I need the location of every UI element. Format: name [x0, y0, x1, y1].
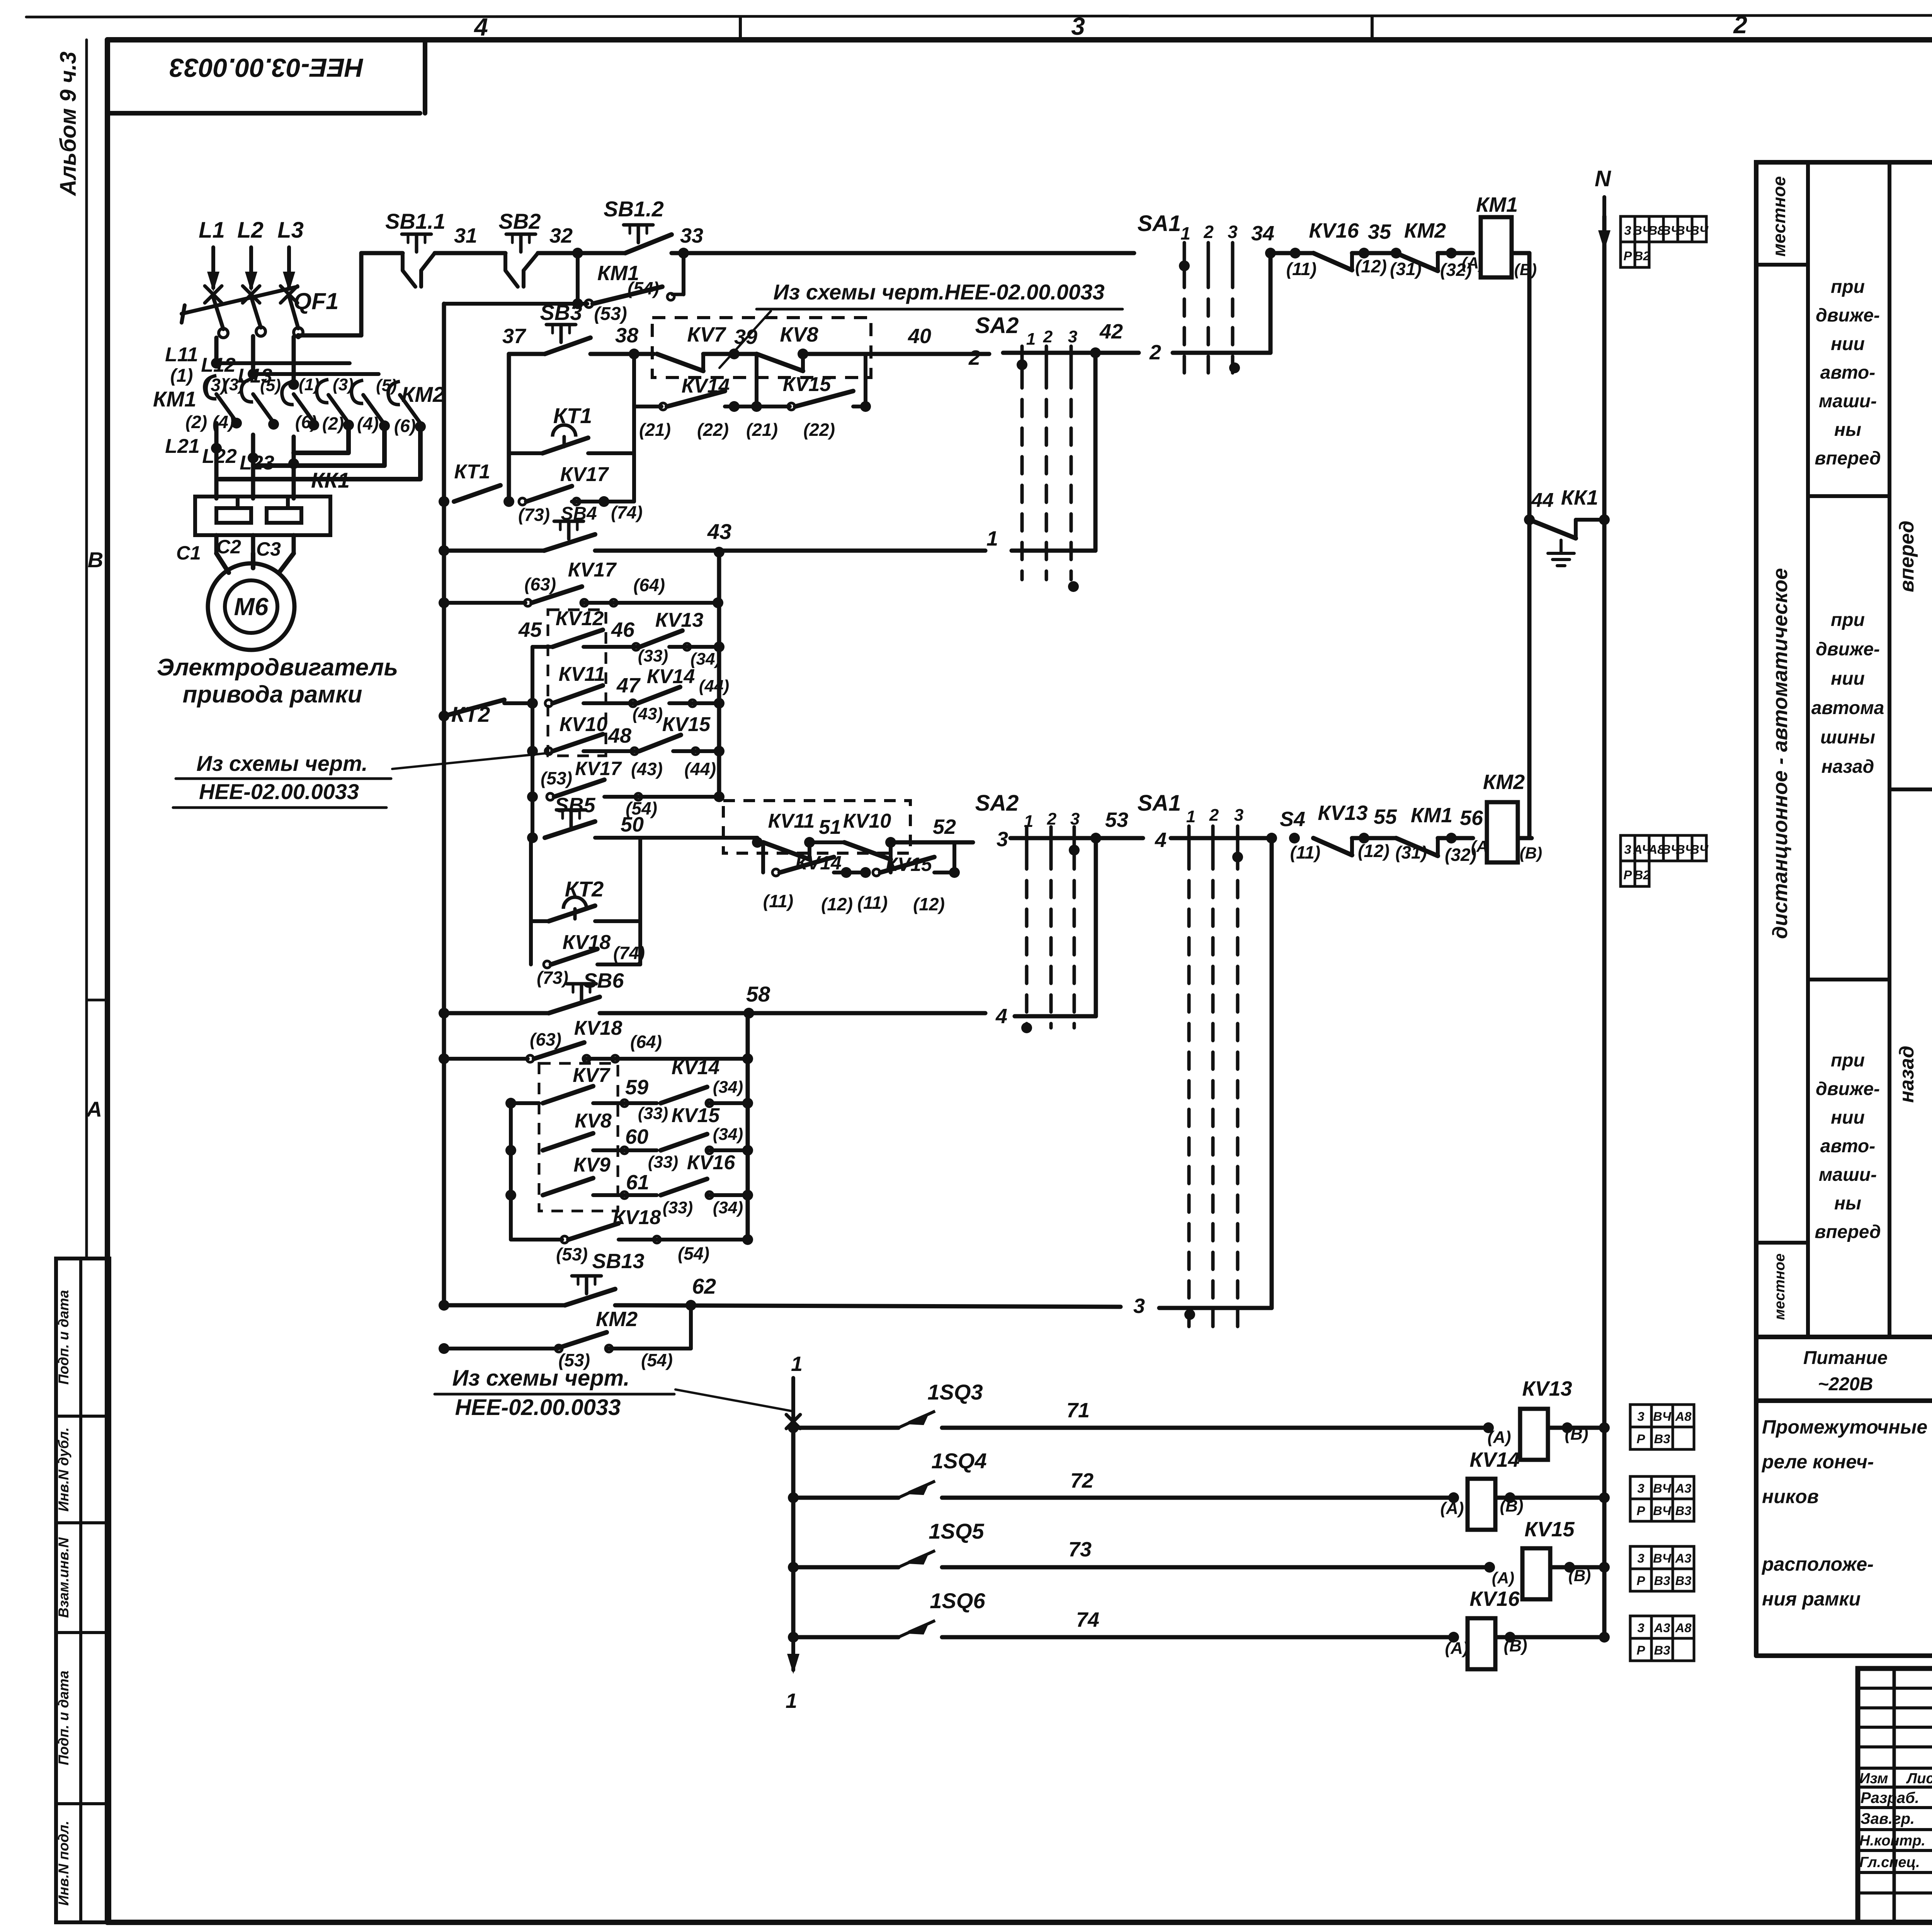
- svg-text:КМ1: КМ1: [1411, 804, 1452, 827]
- leader to KV10: [392, 753, 552, 769]
- relay coil KV13: [1520, 1409, 1548, 1460]
- KT2 / KV18 pair above rail 58: [529, 838, 533, 921]
- svg-text:А8: А8: [1675, 1621, 1692, 1635]
- svg-text:1: 1: [986, 527, 998, 550]
- svg-text:(3): (3): [333, 375, 354, 394]
- svg-text:4: 4: [1155, 828, 1167, 852]
- svg-text:L21: L21: [165, 435, 200, 457]
- svg-text:1SQ5: 1SQ5: [929, 1519, 984, 1543]
- rail 62 / 3: [439, 1300, 449, 1311]
- svg-text:34: 34: [1251, 222, 1274, 245]
- rail 43: [439, 545, 449, 556]
- svg-text:(12): (12): [821, 894, 853, 914]
- svg-text:(44): (44): [699, 677, 729, 696]
- svg-text:58: 58: [746, 982, 770, 1006]
- svg-text:2: 2: [1043, 327, 1053, 346]
- svg-text:назад: назад: [1896, 1046, 1918, 1103]
- svg-text:движе-: движе-: [1816, 1079, 1880, 1099]
- svg-text:47: 47: [616, 674, 641, 697]
- KM2 coil wiring table: [1621, 835, 1635, 861]
- svg-text:КV13: КV13: [1522, 1377, 1572, 1400]
- svg-text:КМ2: КМ2: [1404, 219, 1446, 242]
- svg-text:КV11: КV11: [559, 663, 605, 685]
- svg-text:КV13: КV13: [1318, 801, 1367, 825]
- svg-text:SB1.2: SB1.2: [604, 197, 664, 221]
- bus B vertical (node37): [507, 354, 511, 502]
- wire QF1 pole3 to rail1 riser: [296, 335, 301, 337]
- vertical KM2 coil up to KK1 joint: [1531, 520, 1532, 838]
- svg-text:33: 33: [680, 224, 703, 247]
- svg-text:(64): (64): [630, 1032, 662, 1052]
- svg-text:3: 3: [997, 828, 1008, 851]
- mestnoe top cell: [1756, 263, 1808, 267]
- svg-text:N: N: [1595, 166, 1611, 191]
- dashed box KV7/8/9 lower: [539, 1063, 618, 1211]
- svg-text:нии: нии: [1831, 668, 1865, 689]
- svg-text:(1): (1): [170, 366, 193, 386]
- svg-text:(44): (44): [684, 759, 716, 779]
- svg-text:А3: А3: [1675, 1551, 1692, 1565]
- svg-text:А: А: [86, 1097, 102, 1121]
- SA2-2 right col to rail 4: [1094, 838, 1098, 1016]
- svg-text:А3: А3: [1675, 1481, 1692, 1495]
- svg-text:НЕЕ-02.00.0033: НЕЕ-02.00.0033: [455, 1395, 621, 1420]
- svg-text:3: 3: [1133, 1294, 1145, 1318]
- svg-text:(33): (33): [663, 1198, 693, 1217]
- svg-text:(4): (4): [357, 413, 379, 434]
- svg-text:движе-: движе-: [1816, 639, 1880, 660]
- inner frame: [105, 40, 110, 1922]
- svg-text:ников: ников: [1762, 1486, 1819, 1507]
- KK1 outputs to motor: [214, 535, 219, 553]
- svg-text:С3: С3: [256, 538, 281, 560]
- svg-text:КV10: КV10: [560, 713, 608, 736]
- svg-text:КV18: КV18: [574, 1017, 622, 1039]
- svg-text:59: 59: [625, 1076, 648, 1099]
- relay coil KV16: [1468, 1618, 1495, 1669]
- svg-text:(63): (63): [530, 1029, 561, 1049]
- title block outer: [1858, 1668, 1932, 1922]
- svg-text:44: 44: [1531, 489, 1554, 512]
- svg-text:SB3: SB3: [540, 300, 582, 325]
- svg-text:КТ1: КТ1: [454, 461, 490, 483]
- svg-text:1SQ6: 1SQ6: [930, 1588, 985, 1613]
- svg-text:(74): (74): [613, 943, 645, 963]
- supply x marks: [205, 286, 222, 303]
- svg-text:45: 45: [518, 618, 542, 641]
- svg-text:3: 3: [1068, 327, 1077, 346]
- svg-text:2: 2: [1733, 11, 1747, 39]
- svg-text:52: 52: [933, 815, 956, 838]
- KM2 main contacts: [328, 395, 349, 423]
- svg-text:ВЧ: ВЧ: [1653, 1481, 1672, 1495]
- svg-text:(63): (63): [524, 574, 556, 594]
- svg-text:SB13: SB13: [592, 1250, 644, 1273]
- svg-text:2: 2: [968, 346, 980, 369]
- svg-text:КV17: КV17: [560, 463, 609, 486]
- KM2 selfhold row: [444, 1305, 444, 1349]
- rail1 to KV16: [1270, 251, 1312, 255]
- relay coil KV15: [1522, 1548, 1550, 1599]
- svg-text:В3: В3: [1675, 1573, 1692, 1588]
- sheet margin thin left line: [85, 40, 88, 1259]
- svg-text:3: 3: [1624, 842, 1631, 857]
- svg-text:Р: Р: [1624, 249, 1632, 263]
- svg-text:В3: В3: [1654, 1643, 1670, 1657]
- svg-text:ВЧ: ВЧ: [1690, 842, 1709, 857]
- svg-text:SA1: SA1: [1138, 791, 1181, 816]
- svg-text:L3: L3: [277, 218, 304, 243]
- svg-text:КV8: КV8: [780, 323, 818, 346]
- ruler tick 2: [1371, 16, 1374, 40]
- svg-text:35: 35: [1368, 220, 1391, 243]
- leader to 1SQ bus: [675, 1389, 792, 1411]
- svg-text:(74): (74): [611, 502, 643, 522]
- svg-text:КV16: КV16: [1309, 219, 1359, 242]
- svg-text:Зав.гр.: Зав.гр.: [1861, 1810, 1915, 1827]
- svg-text:1: 1: [1186, 807, 1196, 826]
- svg-text:нии: нии: [1831, 1107, 1865, 1128]
- svg-text:4: 4: [473, 13, 488, 41]
- svg-text:40: 40: [908, 325, 931, 348]
- vertical node58 down: [746, 1013, 750, 1240]
- title block left table rows: [1858, 1687, 1932, 1690]
- relay coil KV14: [1468, 1479, 1495, 1530]
- row 73: [788, 1562, 799, 1573]
- svg-text:ВЧ: ВЧ: [1653, 1409, 1672, 1423]
- KT1 lower row (73 74): [439, 496, 449, 507]
- supply arrows: [211, 247, 215, 288]
- svg-text:71: 71: [1066, 1399, 1090, 1422]
- svg-text:(5): (5): [260, 376, 281, 395]
- svg-text:3: 3: [1624, 223, 1631, 238]
- svg-text:КV14: КV14: [672, 1056, 720, 1079]
- svg-text:КМ2: КМ2: [596, 1308, 638, 1331]
- svg-text:(43): (43): [631, 759, 663, 779]
- svg-text:С2: С2: [216, 536, 241, 558]
- svg-text:(12): (12): [1358, 841, 1389, 861]
- svg-text:КV15: КV15: [783, 373, 832, 396]
- svg-text:КV14: КV14: [647, 665, 695, 688]
- svg-text:КМ1: КМ1: [1476, 193, 1518, 216]
- svg-text:В3: В3: [1654, 1432, 1670, 1446]
- svg-text:3: 3: [1637, 1621, 1644, 1635]
- svg-text:53: 53: [1105, 808, 1128, 832]
- svg-text:КК1: КК1: [1561, 486, 1598, 509]
- svg-text:КV14: КV14: [1469, 1448, 1519, 1471]
- svg-text:(2): (2): [322, 413, 344, 434]
- svg-text:4: 4: [995, 1005, 1007, 1028]
- svg-text:НЕЕ-02.00.0033: НЕЕ-02.00.0033: [199, 779, 359, 804]
- svg-text:(22): (22): [697, 420, 729, 440]
- svg-text:Из схемы черт.: Из схемы черт.: [196, 751, 367, 776]
- svg-text:3: 3: [1637, 1551, 1644, 1565]
- row 48 KV10 KV15: [527, 746, 538, 757]
- svg-text:ВЧ: ВЧ: [1690, 223, 1709, 238]
- svg-text:КТ1: КТ1: [553, 403, 592, 428]
- svg-text:SA1: SA1: [1138, 211, 1181, 236]
- svg-text:(А): (А): [1492, 1569, 1514, 1587]
- svg-text:КV11: КV11: [768, 810, 815, 832]
- svg-text:(21): (21): [746, 420, 778, 440]
- row 61 KV9 KV16: [505, 1190, 516, 1201]
- svg-text:(43): (43): [633, 704, 663, 723]
- svg-text:3: 3: [1637, 1481, 1644, 1495]
- svg-text:А3: А3: [1654, 1621, 1670, 1635]
- svg-text:31: 31: [454, 224, 477, 247]
- svg-text:Р: Р: [1637, 1503, 1645, 1518]
- svg-text:SA2: SA2: [975, 313, 1019, 338]
- svg-text:(2): (2): [185, 412, 207, 432]
- svg-text:КV15: КV15: [672, 1104, 720, 1127]
- promezhutochnye box: [1754, 1401, 1759, 1656]
- row 71: [788, 1422, 799, 1433]
- KV14 KV15 row under: [761, 842, 765, 872]
- svg-text:Подп. и дата: Подп. и дата: [56, 1290, 71, 1384]
- KM2 output loops back to motor lines: [219, 427, 420, 479]
- svg-text:(53): (53): [556, 1244, 588, 1264]
- svg-text:SB2: SB2: [499, 209, 541, 233]
- svg-text:42: 42: [1099, 320, 1123, 343]
- svg-text:(5): (5): [376, 376, 397, 395]
- svg-text:50: 50: [621, 813, 644, 836]
- svg-text:(В): (В): [1520, 844, 1542, 862]
- svg-text:КК1: КК1: [311, 468, 350, 492]
- svg-text:НЕЕ-03.00.0033: НЕЕ-03.00.0033: [169, 53, 364, 82]
- svg-text:КV15: КV15: [662, 713, 711, 736]
- distancionnoe cell: [1756, 1241, 1808, 1245]
- ruler tick 1: [739, 18, 742, 40]
- svg-text:В2: В2: [1634, 868, 1650, 882]
- svg-text:(3): (3): [223, 375, 244, 394]
- svg-text:ния рамки: ния рамки: [1762, 1588, 1861, 1610]
- KV14 KV15 parallel row: [632, 354, 636, 406]
- row 72: [788, 1492, 799, 1503]
- hook jumpers row: [205, 376, 216, 399]
- svg-text:КМ2: КМ2: [1483, 770, 1525, 794]
- svg-text:ВЧ: ВЧ: [1653, 1503, 1672, 1518]
- svg-text:при: при: [1831, 610, 1865, 630]
- svg-text:1: 1: [1180, 223, 1190, 243]
- svg-text:2: 2: [1209, 806, 1219, 825]
- svg-text:L11: L11: [165, 344, 198, 366]
- svg-text:3: 3: [1228, 222, 1238, 242]
- right table frame: [1756, 162, 1932, 1337]
- svg-text:ны: ны: [1834, 1193, 1861, 1214]
- svg-text:В3: В3: [1654, 1573, 1670, 1588]
- svg-text:Разраб.: Разраб.: [1861, 1789, 1919, 1806]
- svg-text:Изм: Изм: [1859, 1770, 1888, 1787]
- svg-text:3: 3: [1234, 806, 1243, 825]
- svg-text:(11): (11): [1286, 259, 1316, 279]
- svg-text:1: 1: [791, 1352, 803, 1376]
- svg-text:назад: назад: [1821, 757, 1874, 777]
- svg-text:(73): (73): [537, 968, 568, 988]
- svg-text:Н.контр.: Н.контр.: [1859, 1833, 1925, 1849]
- svg-text:привода рамки: привода рамки: [183, 681, 362, 708]
- svg-text:QF1: QF1: [294, 288, 339, 314]
- svg-text:3: 3: [1637, 1409, 1644, 1423]
- svg-text:Взам.инв.N: Взам.инв.N: [56, 1537, 71, 1618]
- svg-text:(11): (11): [857, 893, 888, 913]
- svg-text:L1: L1: [199, 218, 225, 243]
- row 59 KV7 KV14: [505, 1098, 516, 1109]
- svg-text:38: 38: [615, 324, 638, 347]
- svg-text:Электродвигатель: Электродвигатель: [157, 654, 398, 681]
- vertical from 43 node down: [717, 552, 721, 797]
- svg-text:КV15: КV15: [1524, 1518, 1575, 1541]
- svg-text:при: при: [1831, 277, 1865, 297]
- svg-text:48: 48: [608, 724, 631, 747]
- svg-text:Лист: Лист: [1906, 1770, 1932, 1787]
- svg-text:авто-: авто-: [1820, 1136, 1875, 1156]
- svg-text:32: 32: [549, 224, 573, 247]
- KM1 selfhold branch: [576, 253, 580, 304]
- svg-text:2: 2: [1203, 222, 1214, 242]
- svg-text:шины: шины: [1820, 727, 1875, 748]
- svg-text:Из схемы черт.НЕЕ-02.00.0033: Из схемы черт.НЕЕ-02.00.0033: [773, 280, 1104, 304]
- svg-text:дистанционное - автоматическое: дистанционное - автоматическое: [1769, 568, 1792, 939]
- svg-text:В2: В2: [1634, 249, 1650, 263]
- svg-text:(1): (1): [299, 375, 320, 394]
- KM1 main contacts: [216, 394, 236, 422]
- svg-text:S4: S4: [1280, 808, 1305, 831]
- svg-text:~220В: ~220В: [1818, 1374, 1873, 1395]
- svg-text:74: 74: [1076, 1608, 1099, 1631]
- svg-text:местное: местное: [1772, 1253, 1788, 1320]
- svg-text:Р: Р: [1637, 1643, 1645, 1657]
- row 74: [788, 1632, 799, 1643]
- svg-text:(21): (21): [639, 420, 671, 440]
- svg-text:(73): (73): [518, 505, 550, 525]
- KV13..KV16 coil wiring tables: [1630, 1405, 1651, 1427]
- row 60 KV8 KV15: [505, 1145, 516, 1156]
- svg-text:(54): (54): [678, 1243, 709, 1264]
- svg-text:(12): (12): [1355, 256, 1387, 276]
- svg-text:КV12: КV12: [556, 607, 604, 630]
- svg-text:(11): (11): [1290, 842, 1320, 862]
- svg-text:маши-: маши-: [1819, 391, 1877, 412]
- svg-text:(33): (33): [638, 646, 668, 665]
- svg-text:61: 61: [626, 1171, 649, 1194]
- svg-text:КV16: КV16: [687, 1151, 736, 1174]
- KV17 row 63/64: [439, 597, 449, 608]
- svg-text:Альбом 9 ч.3: Альбом 9 ч.3: [56, 51, 81, 196]
- svg-text:72: 72: [1070, 1469, 1094, 1492]
- col2 row dividers: [1808, 494, 1889, 498]
- svg-text:(22): (22): [803, 420, 835, 440]
- svg-text:В3: В3: [1675, 1503, 1692, 1518]
- svg-text:SA2: SA2: [975, 791, 1019, 816]
- svg-text:вперед: вперед: [1815, 1222, 1881, 1242]
- row KV18 bottom: [511, 1238, 562, 1242]
- svg-text:нии: нии: [1831, 334, 1865, 354]
- svg-text:(34): (34): [713, 1078, 743, 1097]
- svg-text:движе-: движе-: [1816, 305, 1880, 326]
- svg-text:62: 62: [692, 1274, 716, 1298]
- svg-text:73: 73: [1068, 1538, 1092, 1561]
- svg-text:маши-: маши-: [1819, 1165, 1877, 1185]
- svg-text:1SQ4: 1SQ4: [931, 1449, 986, 1473]
- svg-text:Инв.N дубл.: Инв.N дубл.: [56, 1427, 71, 1512]
- zone divider tick: [87, 999, 107, 1002]
- svg-text:43: 43: [707, 519, 731, 544]
- svg-text:55: 55: [1374, 805, 1397, 828]
- svg-text:(33): (33): [638, 1104, 668, 1123]
- svg-text:SB1.1: SB1.1: [385, 209, 446, 233]
- rail 4 (58): [439, 1008, 449, 1019]
- svg-text:Р: Р: [1624, 868, 1632, 882]
- svg-text:КV9: КV9: [573, 1154, 611, 1176]
- svg-text:КV8: КV8: [575, 1110, 612, 1132]
- svg-text:КV13: КV13: [655, 609, 704, 631]
- svg-text:КV7: КV7: [573, 1064, 611, 1087]
- svg-text:КМ1: КМ1: [153, 387, 196, 411]
- svg-text:ны: ны: [1834, 420, 1861, 440]
- vertical from KM1 coil down to KK1: [1527, 253, 1532, 837]
- svg-text:(54): (54): [641, 1350, 673, 1370]
- svg-text:Питание: Питание: [1803, 1348, 1888, 1368]
- svg-text:ВЧ: ВЧ: [1653, 1551, 1672, 1565]
- svg-text:при: при: [1831, 1050, 1865, 1071]
- svg-text:51: 51: [819, 816, 841, 838]
- svg-text:60: 60: [625, 1125, 648, 1148]
- svg-text:(34): (34): [690, 650, 721, 668]
- svg-text:L2: L2: [237, 218, 264, 243]
- svg-text:(53): (53): [594, 304, 627, 324]
- svg-text:SB5: SB5: [554, 794, 595, 817]
- svg-text:1SQ3: 1SQ3: [927, 1380, 983, 1404]
- SA2 right column down to rail 43: [1094, 353, 1098, 551]
- svg-text:(12): (12): [913, 894, 945, 914]
- svg-text:местное: местное: [1769, 176, 1789, 257]
- svg-text:37: 37: [502, 325, 527, 348]
- rail 3 left (KV11 S1 KV10 52): [752, 837, 763, 848]
- svg-text:Инв.N подл.: Инв.N подл.: [56, 1821, 71, 1906]
- svg-text:автома: автома: [1811, 698, 1884, 718]
- KM1 coil wiring table: [1621, 216, 1635, 242]
- svg-text:(33): (33): [648, 1153, 678, 1172]
- svg-text:Гл.спец.: Гл.спец.: [1859, 1854, 1920, 1871]
- svg-text:КV17: КV17: [568, 559, 617, 581]
- svg-text:Промежуточные: Промежуточные: [1762, 1416, 1927, 1438]
- col3 divider + texts: [1889, 787, 1932, 791]
- svg-text:КV18: КV18: [613, 1206, 661, 1229]
- node row L11: [211, 358, 222, 369]
- svg-text:Р: Р: [1637, 1573, 1645, 1588]
- svg-text:вперед: вперед: [1815, 448, 1881, 469]
- bus A vertical: [442, 304, 446, 1305]
- svg-text:(34): (34): [713, 1125, 743, 1144]
- svg-text:КV16: КV16: [1469, 1587, 1520, 1611]
- pole drops to L11 node row: [214, 338, 219, 363]
- top-left stamp box НЕЕ-03.00.0033 (rotated): [107, 111, 420, 116]
- svg-text:(53): (53): [541, 768, 572, 788]
- svg-text:1: 1: [786, 1689, 797, 1713]
- svg-text:С1: С1: [176, 542, 201, 564]
- svg-text:56: 56: [1460, 806, 1483, 830]
- row KV17 (53): [527, 791, 538, 802]
- motor M6: [208, 563, 294, 650]
- pitanie box: [1756, 1335, 1932, 1339]
- SA1-2 right col down to rail 62: [1270, 838, 1274, 1308]
- rail 1 (top): [361, 251, 403, 255]
- title block left table verticals: [1893, 1668, 1896, 1922]
- svg-text:46: 46: [611, 618, 635, 641]
- svg-text:3: 3: [1071, 12, 1085, 40]
- svg-text:КV7: КV7: [687, 323, 726, 346]
- svg-text:В: В: [88, 548, 103, 572]
